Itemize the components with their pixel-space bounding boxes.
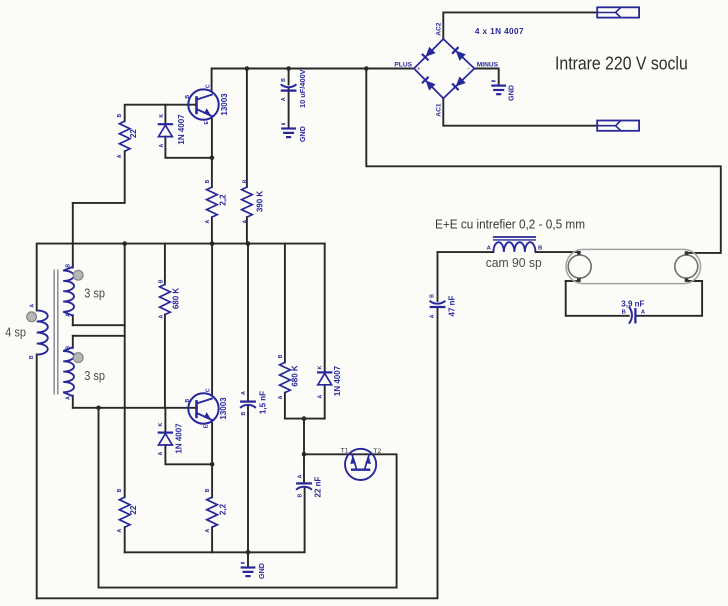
svg-text:B: B: [278, 354, 284, 358]
svg-text:E: E: [203, 424, 209, 428]
svg-text:B: B: [117, 113, 123, 117]
svg-text:10 uF/400V: 10 uF/400V: [298, 69, 307, 108]
svg-text:B: B: [429, 294, 435, 298]
svg-text:cam 90 sp: cam 90 sp: [486, 256, 542, 270]
svg-text:GND: GND: [298, 126, 307, 142]
svg-text:A: A: [30, 304, 36, 308]
svg-text:4 sp: 4 sp: [5, 325, 26, 340]
svg-text:GND: GND: [257, 563, 266, 579]
svg-text:B: B: [205, 488, 211, 492]
svg-text:B: B: [281, 78, 287, 82]
svg-text:A: A: [66, 313, 72, 317]
svg-text:C: C: [206, 84, 212, 88]
svg-text:B: B: [66, 346, 72, 350]
svg-text:1N 4007: 1N 4007: [333, 365, 342, 396]
svg-text:E: E: [204, 121, 210, 125]
svg-text:B: B: [185, 95, 191, 99]
svg-text:PLUS: PLUS: [394, 61, 412, 68]
svg-text:B: B: [117, 488, 123, 492]
svg-text:A: A: [66, 396, 72, 400]
svg-text:A: A: [117, 528, 123, 532]
svg-text:680 K: 680 K: [290, 365, 299, 387]
svg-text:A: A: [205, 219, 211, 223]
svg-text:22: 22: [129, 505, 138, 514]
svg-text:B: B: [158, 279, 164, 283]
svg-text:MINUS: MINUS: [477, 61, 499, 68]
svg-text:T1: T1: [341, 448, 349, 455]
svg-text:2,2: 2,2: [218, 194, 227, 206]
svg-text:1N 4007: 1N 4007: [177, 114, 186, 145]
svg-text:GND: GND: [506, 85, 515, 101]
svg-text:13003: 13003: [219, 397, 228, 420]
svg-text:Intrare 220 V soclu: Intrare 220 V soclu: [555, 53, 688, 73]
svg-text:1N 4007: 1N 4007: [174, 423, 183, 454]
svg-text:AC2: AC2: [435, 22, 442, 36]
svg-text:T2: T2: [373, 448, 381, 455]
svg-text:C: C: [205, 388, 211, 392]
svg-text:K: K: [158, 422, 164, 426]
svg-text:22: 22: [129, 129, 138, 138]
svg-text:A: A: [205, 528, 211, 532]
svg-text:4 x 1N 4007: 4 x 1N 4007: [475, 27, 524, 36]
svg-text:A: A: [641, 310, 646, 316]
svg-text:B: B: [66, 264, 72, 268]
svg-text:390 K: 390 K: [255, 191, 264, 213]
svg-text:22 nF: 22 nF: [313, 476, 322, 497]
svg-text:3 sp: 3 sp: [84, 368, 105, 383]
svg-text:A: A: [117, 154, 123, 158]
svg-text:13003: 13003: [220, 93, 229, 116]
svg-text:B: B: [29, 355, 35, 359]
svg-text:A: A: [487, 246, 492, 252]
svg-text:A: A: [281, 97, 287, 101]
svg-text:A: A: [298, 474, 304, 478]
svg-text:K: K: [159, 114, 165, 118]
svg-text:A: A: [158, 314, 164, 318]
svg-text:A: A: [278, 395, 284, 399]
svg-text:680 K: 680 K: [171, 288, 180, 310]
svg-text:A: A: [158, 451, 164, 455]
svg-text:A: A: [241, 391, 247, 395]
svg-text:B: B: [622, 310, 626, 316]
svg-text:B: B: [538, 246, 542, 252]
svg-text:K: K: [318, 365, 324, 369]
svg-text:AC1: AC1: [436, 103, 443, 117]
svg-text:A: A: [159, 143, 165, 147]
svg-text:2,2: 2,2: [218, 503, 227, 515]
svg-text:3 sp: 3 sp: [84, 286, 105, 301]
svg-text:A: A: [318, 394, 324, 398]
svg-text:1,5 nF: 1,5 nF: [258, 391, 267, 414]
svg-text:3,9 nF: 3,9 nF: [621, 300, 644, 309]
svg-text:B: B: [185, 398, 191, 402]
svg-text:A: A: [429, 314, 435, 318]
svg-text:A: A: [242, 219, 248, 223]
svg-text:E+E cu intrefier 0,2 - 0,5 mm: E+E cu intrefier 0,2 - 0,5 mm: [435, 217, 585, 232]
svg-text:B: B: [241, 411, 247, 415]
svg-text:+: +: [417, 66, 421, 73]
svg-text:B: B: [242, 179, 248, 183]
svg-text:47 nF: 47 nF: [447, 295, 456, 316]
svg-text:B: B: [205, 179, 211, 183]
svg-text:B: B: [298, 493, 304, 497]
